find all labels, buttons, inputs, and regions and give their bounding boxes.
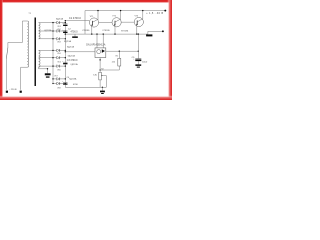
capacitor C3 bbox=[63, 61, 67, 63]
wire VT3 emitter pin bbox=[136, 26, 138, 34]
resistor R2 potentiometer bbox=[99, 72, 102, 80]
node left bus VD4 bbox=[52, 50, 53, 51]
wire VT3 rail to C5 bbox=[137, 34, 139, 59]
node right bus VD7 bbox=[65, 78, 66, 79]
node right bus VD3 bbox=[65, 38, 66, 39]
svg-text:VD3: VD3 bbox=[57, 41, 61, 43]
svg-text:КТ818Б: КТ818Б bbox=[103, 30, 111, 32]
svg-text:КТ818Б: КТ818Б bbox=[121, 30, 129, 32]
svg-text:VD8: VD8 bbox=[57, 88, 61, 90]
node VT3 rail bbox=[136, 33, 137, 34]
node VT1 rail bbox=[91, 33, 92, 34]
node plus terminal bbox=[164, 10, 166, 12]
wire riser x85 bbox=[84, 11, 86, 34]
node VT1 top rail bbox=[97, 10, 98, 11]
node C5 top bbox=[138, 51, 139, 52]
wire R2 bottom bbox=[99, 80, 101, 87]
wire VT3 collector stub bbox=[142, 11, 144, 20]
wire mains left vertical bbox=[5, 59, 7, 90]
wire VT2 emitter pin bbox=[114, 27, 116, 34]
svg-text:КД213А: КД213А bbox=[69, 77, 77, 80]
resistor R1 bbox=[118, 58, 121, 66]
node left bus VD1 bbox=[52, 22, 53, 23]
diode VD2 bbox=[57, 30, 60, 33]
svg-text:КД213А: КД213А bbox=[64, 40, 72, 43]
wire lower rail bbox=[65, 33, 148, 35]
node ground junction bbox=[102, 87, 103, 88]
node VT2 rail bbox=[114, 33, 115, 34]
svg-text:+ 1,5...30 В: + 1,5...30 В bbox=[146, 12, 163, 15]
svg-text:С3 4700.0: С3 4700.0 bbox=[67, 60, 78, 62]
node right bus VD6 bbox=[65, 65, 66, 66]
wire stub right VD6 bbox=[60, 65, 65, 67]
transformer secondary winding I bbox=[39, 23, 40, 39]
diode VD8 bbox=[57, 82, 60, 85]
svg-text:VD4: VD4 bbox=[57, 53, 61, 55]
terminal X1 bbox=[6, 91, 8, 93]
svg-text:4700: 4700 bbox=[73, 84, 79, 86]
wire R1 top lead bbox=[118, 51, 120, 58]
wire stub right VD4 bbox=[60, 49, 65, 51]
svg-text:КД213А: КД213А bbox=[68, 55, 76, 58]
diode VD1 bbox=[57, 21, 60, 24]
terminal X2 bbox=[20, 91, 22, 93]
node pin b rail bbox=[103, 33, 104, 34]
wire secondary tap row VD1 bbox=[39, 22, 57, 24]
wire reg pin a up bbox=[96, 34, 98, 48]
node right bus VD5 bbox=[65, 57, 66, 58]
wire secondary tap row VD2 bbox=[39, 30, 57, 32]
wire secondary tap row VD3 bbox=[39, 38, 57, 40]
wire stub left row y78.9 bbox=[53, 78, 57, 80]
node minus terminal bbox=[162, 30, 164, 32]
wire base rail bbox=[65, 20, 89, 22]
regulator arrow symbol bbox=[102, 49, 105, 53]
svg-text:С1 4700.0: С1 4700.0 bbox=[69, 16, 82, 20]
wire base VT2-VT3 bbox=[121, 21, 134, 23]
wire switch to primary top bbox=[8, 21, 28, 48]
diode VD4 bbox=[57, 49, 60, 52]
wire secondary tap row VD5 bbox=[39, 57, 57, 59]
svg-text:VD6: VD6 bbox=[57, 69, 61, 71]
svg-text:R2: R2 bbox=[101, 69, 103, 71]
svg-text:4700.0: 4700.0 bbox=[71, 32, 79, 34]
wire secondary tap row VD6 bbox=[39, 65, 57, 67]
wire reg output bbox=[106, 50, 139, 52]
wire C5 to ground bbox=[137, 61, 139, 64]
wiper arrowhead bbox=[102, 75, 103, 76]
wire stub right VD1 bbox=[60, 22, 65, 24]
transformer secondary winding II bbox=[39, 50, 40, 67]
svg-text:КД213А: КД213А bbox=[67, 45, 75, 48]
svg-text:КД213А: КД213А bbox=[71, 63, 79, 66]
wire top rail bbox=[85, 10, 165, 12]
svg-text:КТ818Б: КТ818Б bbox=[82, 30, 90, 32]
node pin a rail bbox=[96, 33, 97, 34]
svg-text:КД213А: КД213А bbox=[56, 17, 64, 20]
wire secondary tap row VD4 bbox=[39, 49, 57, 51]
wire right bus bbox=[64, 21, 66, 88]
wire bottom rail bbox=[65, 86, 106, 88]
node input at bus bbox=[65, 51, 66, 52]
wire VT2 collector stub bbox=[120, 11, 122, 20]
svg-text:6,8к: 6,8к bbox=[93, 74, 97, 76]
transistor VT1 bbox=[89, 18, 98, 27]
wire R1 bottom to adj bbox=[100, 66, 119, 70]
regulator DA1 box bbox=[95, 48, 106, 58]
node VT3 x rail bbox=[138, 33, 139, 34]
node left bus VD6 bbox=[52, 65, 53, 66]
node left bus VD8 bbox=[52, 83, 53, 84]
transistor VT2 bbox=[112, 18, 121, 27]
wire stub right VD5 bbox=[60, 57, 65, 59]
wire winding II to ground bbox=[39, 67, 48, 73]
wire base VT1-VT2 bbox=[99, 21, 113, 23]
node adj junction bbox=[99, 69, 100, 70]
node right bus VD4 bbox=[65, 50, 66, 51]
wire stub right VD7 bbox=[60, 78, 65, 80]
ground under transformer bbox=[45, 73, 51, 75]
node left bus VD7 bbox=[52, 78, 53, 79]
diode VD6 bbox=[57, 65, 60, 68]
svg-text:VD2: VD2 bbox=[57, 29, 61, 31]
node R1 top bbox=[119, 51, 120, 52]
node right bus VD2 bbox=[65, 30, 66, 31]
svg-text:VD5: VD5 bbox=[57, 62, 61, 64]
wire minus jog bbox=[148, 31, 163, 34]
wire rail ground stem bbox=[74, 34, 76, 36]
node right bus VD1 bbox=[65, 22, 66, 23]
wire stub right VD2 bbox=[60, 30, 65, 32]
capacitor C5 bottom plate bbox=[135, 59, 141, 61]
minus polarity bar bbox=[146, 34, 152, 36]
wire mains right to primary bottom bbox=[21, 67, 28, 90]
diode VD3 bbox=[57, 38, 60, 41]
diode VD7 bbox=[57, 78, 60, 81]
ground at regulator bbox=[100, 91, 105, 93]
node VT3 top rail bbox=[142, 10, 143, 11]
wire adj pin down bbox=[99, 58, 101, 73]
wire ground stem bbox=[101, 87, 103, 90]
capacitor C2 bbox=[63, 30, 67, 32]
wire R2 wiper loop bbox=[102, 76, 107, 88]
capacitor C1 bbox=[63, 23, 67, 25]
wire VT1 emitter pin bbox=[91, 27, 93, 34]
svg-text:VD7: VD7 bbox=[54, 75, 58, 77]
wire reg input bbox=[65, 51, 95, 53]
svg-text:~ 220 В: ~ 220 В bbox=[9, 89, 17, 91]
ground on lower rail bbox=[72, 36, 78, 38]
ground under C5 bbox=[135, 64, 141, 65]
node winding ground corner bbox=[47, 68, 48, 69]
node below regulator bbox=[99, 59, 100, 60]
svg-text:VD1: VD1 bbox=[57, 26, 61, 28]
svg-text:100,0: 100,0 bbox=[142, 61, 148, 63]
capacitor C4 bbox=[63, 82, 67, 84]
capacitor C5 top plate bbox=[135, 58, 141, 60]
wire left bus bbox=[52, 23, 54, 84]
regulator circle symbol bbox=[97, 50, 101, 54]
node left bus VD5 bbox=[52, 57, 53, 58]
node left bus VD2 bbox=[52, 30, 53, 31]
wire reg pin b up bbox=[102, 34, 104, 48]
transformer primary winding bbox=[27, 21, 28, 67]
transformer core bbox=[35, 18, 36, 87]
wire VT1 collector stub bbox=[97, 11, 99, 20]
node base at bus bbox=[65, 20, 66, 21]
switch SA1 bbox=[6, 48, 8, 59]
node VT2 top rail bbox=[120, 10, 121, 11]
svg-text:DA1 КР142ЕН12А: DA1 КР142ЕН12А bbox=[86, 44, 106, 47]
svg-text:КД213А: КД213А bbox=[44, 29, 52, 32]
wire stub right VD8 bbox=[60, 83, 65, 85]
transistor VT3 bbox=[134, 17, 143, 26]
wire stub left row y83.5 bbox=[53, 83, 57, 85]
node lower rail bus bbox=[65, 33, 66, 34]
node right bus VD8 bbox=[65, 83, 66, 84]
wire stub right VD3 bbox=[60, 38, 65, 40]
diode VD5 bbox=[57, 56, 60, 59]
node left bus VD3 bbox=[52, 38, 53, 39]
